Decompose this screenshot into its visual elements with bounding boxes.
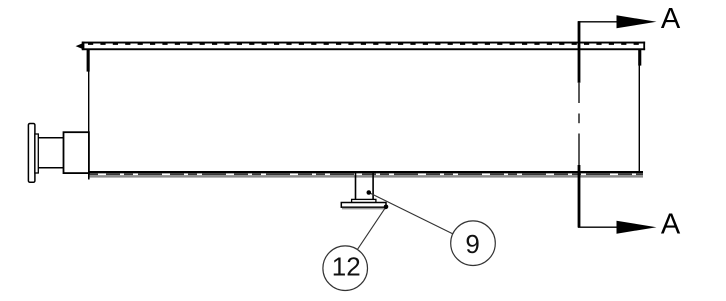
tank bottom black edge	[89, 171, 643, 173]
nozzle raised face	[35, 134, 38, 173]
section line thin segment upper	[578, 83, 580, 103]
nozzle boss block	[64, 132, 89, 173]
section arrow line top	[578, 21, 618, 23]
tank right wall thick segment below rim	[638, 50, 641, 66]
tank right wall	[639, 50, 640, 172]
tank top rim right end cap	[643, 42, 645, 51]
svg-text:A: A	[661, 3, 681, 35]
svg-text:A: A	[661, 208, 681, 240]
tank top rim top edge	[82, 42, 645, 44]
section arrowhead top	[617, 15, 657, 28]
drain flange plate	[341, 203, 386, 208]
section line thin segment lower	[578, 134, 580, 166]
section line thick bottom segment	[578, 165, 581, 228]
drain neck left edge	[355, 173, 357, 200]
tank bottom gray band	[89, 175, 643, 177]
nozzle pipe bottom line	[38, 167, 64, 169]
nozzle pipe top line	[38, 137, 64, 139]
leader line to balloon 9	[369, 193, 453, 234]
tank bottom hidden dash row	[89, 173, 643, 175]
section arrowhead bottom	[617, 221, 657, 234]
balloon circle 12	[323, 246, 368, 291]
tank left wall	[88, 50, 89, 180]
tank left wall thick segment below rim	[87, 50, 90, 72]
section line thick top segment	[578, 21, 581, 82]
svg-text:9: 9	[465, 229, 479, 259]
nozzle flange N1	[28, 124, 35, 183]
section line center dash	[578, 114, 580, 124]
tank left wall stub below bottom	[88, 173, 90, 179]
balloon circle 9	[451, 221, 496, 266]
tank top rim left tip	[76, 44, 82, 49]
leader dot on drain flange corner	[384, 205, 389, 210]
svg-text:12: 12	[332, 252, 361, 282]
leader line to balloon 12	[358, 207, 386, 249]
tank top rim bottom edge	[82, 48, 645, 50]
tank top rim left end cap	[82, 42, 85, 51]
drain neck right edge	[372, 173, 374, 200]
tank top rim hidden dash row under top edge	[88, 43, 641, 45]
section arrow line bottom	[578, 226, 618, 228]
drain flange gray shadow	[342, 208, 386, 210]
leader dot on drain neck	[367, 190, 372, 195]
tank bottom hidden white dashes	[98, 173, 643, 175]
drain collar	[352, 199, 376, 202]
